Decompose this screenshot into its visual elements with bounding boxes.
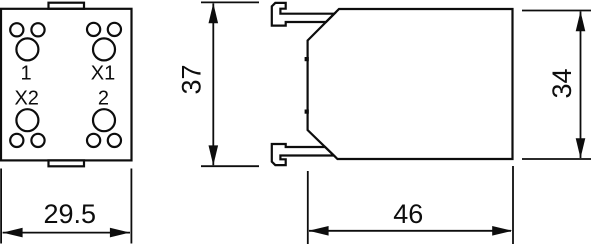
svg-text:2: 2 — [98, 87, 109, 109]
dimension 46 left extension line — [307, 171, 309, 244]
terminal group 1 top-left: small circle b — [31, 23, 44, 36]
terminal group X1 top-right: small circle b — [108, 23, 121, 36]
terminal group X1 top-right: large circle — [93, 38, 115, 60]
dimension 34 dimension line — [580, 12, 582, 159]
dimension 46 right extension line — [512, 166, 514, 244]
dimension 34 bottom extension line — [522, 158, 591, 160]
terminal group 1 top-left: small circle a — [10, 23, 23, 36]
dimension 37 dimension line — [212, 3, 214, 165]
terminal group 2 bottom-right: small circle a — [87, 134, 100, 147]
terminal group 1 top-left: large circle — [16, 38, 38, 60]
terminal group X2 bottom-left: small circle b — [31, 134, 44, 147]
dimension 37 bottom arrowhead — [209, 145, 219, 165]
svg-text:37: 37 — [177, 64, 207, 94]
side view parting nub upper — [305, 57, 309, 61]
terminal group X2 bottom-left: small circle a — [10, 134, 23, 147]
dimension 29.5 right extension line — [130, 169, 132, 244]
dimension 37 top extension line — [201, 1, 259, 3]
svg-text:1: 1 — [20, 63, 31, 85]
side view top snap clip — [272, 3, 335, 26]
terminal group X1 top-right: small circle a — [87, 23, 100, 36]
dimension 46 left arrowhead — [309, 226, 329, 236]
side view bottom snap clip — [272, 144, 334, 165]
svg-text:46: 46 — [393, 199, 423, 229]
dimension 46 right arrowhead — [492, 226, 512, 236]
dimension 37 bottom extension line — [201, 165, 259, 167]
dimension 29.5 dimension line — [3, 232, 130, 234]
side view body outline — [308, 9, 513, 159]
dimension 34 top arrowhead — [576, 11, 586, 31]
front view bottom mounting tab — [49, 160, 85, 166]
svg-text:X1: X1 — [91, 63, 115, 85]
svg-text:34: 34 — [547, 68, 577, 98]
terminal group 2 bottom-right: small circle b — [108, 134, 121, 147]
terminal group 2 bottom-right: large circle — [93, 109, 115, 131]
dimension 46 dimension line — [309, 230, 511, 232]
front view top mounting tab — [49, 3, 85, 9]
front view housing outline — [1, 9, 132, 161]
dimension 29.5 left extension line — [0, 169, 2, 244]
dimension 37 top arrowhead — [209, 3, 219, 23]
svg-text:29.5: 29.5 — [44, 199, 97, 229]
dimension 34 bottom arrowhead — [576, 138, 586, 158]
svg-text:X2: X2 — [14, 87, 38, 109]
dimension 29.5 left arrowhead — [3, 228, 23, 238]
terminal group X2 bottom-left: large circle — [16, 109, 38, 131]
dimension 29.5 right arrowhead — [110, 228, 130, 238]
dimension 34 top extension line — [522, 10, 591, 12]
side view parting nub lower — [305, 110, 309, 114]
